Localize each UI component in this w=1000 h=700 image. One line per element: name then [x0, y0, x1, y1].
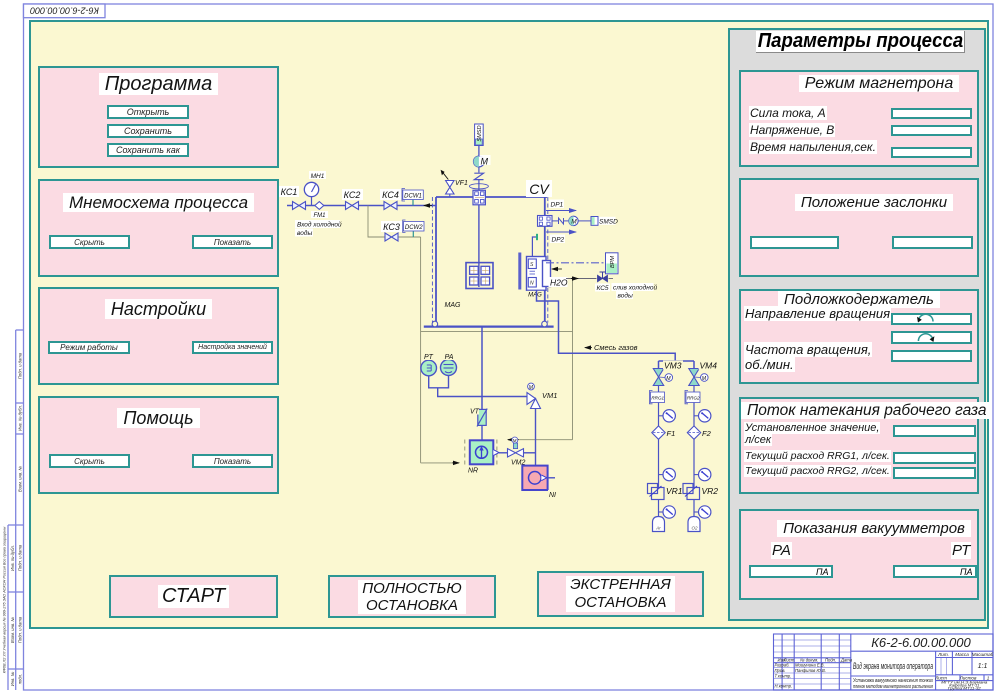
svg-text:К6-2-6.00.00.000: К6-2-6.00.00.000 — [30, 5, 99, 15]
note слив холодной воды — [612, 283, 658, 300]
valve КС2 — [346, 202, 359, 210]
svg-text:Разраб.: Разраб. — [775, 663, 790, 668]
valve КС5 — [598, 272, 608, 282]
svg-text:MAG: MAG — [445, 302, 462, 309]
panel Подложкодержатель — [739, 289, 979, 384]
gauge column1 b — [659, 468, 676, 480]
svg-text:КС5: КС5 — [596, 285, 608, 292]
label КС1 — [279, 186, 299, 197]
svg-text:Инв. № дубл.: Инв. № дубл. — [10, 545, 15, 571]
motor M — [474, 155, 491, 167]
control arrow to NR — [452, 462, 459, 464]
svg-text:SMSD: SMSD — [599, 219, 618, 226]
svg-text:К6-2-6.00.00.000: К6-2-6.00.00.000 — [871, 635, 971, 650]
gauge column2 b — [694, 468, 711, 480]
gauge column2 c — [694, 506, 711, 518]
svg-text:VR2: VR2 — [702, 486, 719, 496]
left section rows — [774, 640, 851, 684]
svg-text:Ar: Ar — [655, 526, 661, 531]
regulator VR1 — [648, 484, 685, 517]
button СТАРТ — [109, 575, 278, 618]
svg-text:М: М — [571, 219, 577, 226]
svg-text:М: М — [481, 157, 489, 167]
svg-text:М: М — [666, 376, 671, 382]
window feedthrough on right wall — [538, 216, 553, 227]
svg-text:RRG1: RRG1 — [651, 396, 664, 401]
svg-text:PT: PT — [424, 354, 434, 361]
svg-text:КФ6В.Л2 УЛ Учебная версия № 99: КФ6В.Л2 УЛ Учебная версия № 999-276 ЗАО … — [3, 527, 7, 674]
svg-text:М: М — [513, 438, 517, 443]
svg-text:ВРМ: ВРМ — [610, 256, 616, 268]
svg-text:Лист: Лист — [783, 657, 795, 662]
wire: gauge manifold — [429, 376, 531, 397]
svg-text:подл.: подл. — [18, 674, 23, 684]
svg-text:VT: VT — [470, 409, 480, 416]
motor M2 (shutter drive) — [569, 216, 591, 225]
gauge column2 a — [694, 410, 711, 422]
svg-text:Взам. инв. №: Взам. инв. № — [18, 466, 23, 492]
svg-text:Смесь газов: Смесь газов — [594, 343, 638, 352]
regulator VR2 — [683, 484, 720, 517]
label MAG (magnetron) — [527, 291, 544, 299]
svg-text:Подп. и дата: Подп. и дата — [18, 352, 23, 379]
svg-text:Н.контр.: Н.контр. — [775, 684, 793, 689]
svg-text:RRG2: RRG2 — [687, 396, 700, 401]
svg-text:FM1: FM1 — [314, 213, 326, 219]
svg-text:воды: воды — [297, 229, 312, 237]
panel Режим магнетрона — [739, 70, 979, 167]
wire: chamber to VT — [481, 327, 483, 410]
bellows — [469, 184, 488, 189]
wire: cold water main line — [287, 205, 436, 207]
gauge МН1 — [304, 171, 326, 206]
label КС4 — [380, 189, 401, 200]
label Н2О — [549, 277, 568, 287]
wire: branch to КС3 — [368, 206, 421, 238]
svg-text:F1: F1 — [667, 429, 676, 438]
gas gauges PT PA — [421, 352, 437, 376]
svg-text:КС3: КС3 — [383, 222, 400, 232]
svg-text:М: М — [702, 376, 707, 382]
panel Поток натекания рабочего газа — [739, 397, 979, 494]
svg-text:Группа МТ11-32: Группа МТ11-32 — [948, 686, 982, 690]
block SMSD2 — [591, 217, 618, 226]
gauge port DP1 — [546, 200, 576, 211]
svg-text:DP1: DP1 — [551, 202, 564, 209]
arrow into chamber water port — [424, 205, 432, 207]
rotary feedthrough — [473, 190, 485, 205]
svg-text:1:1: 1:1 — [978, 663, 988, 670]
svg-text:Т.контр.: Т.контр. — [775, 673, 792, 678]
label CV — [526, 180, 552, 197]
svg-text:Взам. инв. №: Взам. инв. № — [10, 617, 15, 643]
svg-text:КС1: КС1 — [281, 187, 298, 197]
svg-text:MAG: MAG — [528, 293, 542, 299]
svg-text:Масса: Масса — [955, 652, 969, 657]
right grey column — [728, 28, 986, 621]
svg-text:слив холодной: слив холодной — [613, 284, 657, 292]
panel Настройки — [38, 287, 279, 385]
svg-text:N: N — [530, 280, 534, 286]
svg-text:VM3: VM3 — [664, 360, 682, 370]
valve VM2 — [508, 437, 528, 467]
svg-text:VF1: VF1 — [455, 180, 468, 187]
rotation direction arc ccw — [917, 314, 933, 322]
svg-text:Панфилов Ю.В.: Панфилов Ю.В. — [795, 668, 826, 673]
svg-text:DP2: DP2 — [552, 237, 565, 244]
valve КС3 — [385, 233, 398, 241]
svg-text:DCW2: DCW2 — [405, 225, 423, 231]
wire SMSD to motor — [478, 146, 480, 157]
wire NR to VM2 — [499, 452, 508, 454]
svg-text:пленок методом магнетронного р: пленок методом магнетронного распыления — [853, 684, 933, 690]
svg-text:Инв. №: Инв. № — [10, 671, 15, 686]
svg-text:NI: NI — [549, 492, 556, 499]
svg-text:Дата: Дата — [840, 657, 853, 662]
filter F1 — [652, 426, 675, 488]
svg-text:NR: NR — [468, 468, 478, 475]
wire: gas mixture line — [537, 290, 695, 368]
label Смесь газов — [585, 342, 638, 352]
svg-text:Вход холодной: Вход холодной — [297, 221, 342, 229]
flexible coupling Z — [474, 167, 483, 190]
valve КС4 — [384, 202, 397, 210]
panel Мнемосхема процесса — [38, 179, 279, 277]
drain line to КС5 — [566, 278, 613, 280]
contact N — [552, 218, 569, 224]
svg-text:Подп. и дата: Подп. и дата — [18, 616, 23, 643]
left margin rotated labels — [3, 352, 23, 686]
svg-text:DCW1: DCW1 — [404, 193, 422, 199]
title block — [774, 634, 994, 690]
gauge column1 a — [659, 410, 676, 422]
svg-text:VR1: VR1 — [666, 486, 683, 496]
vacuum chamber CV — [424, 197, 554, 327]
label КС5 — [595, 284, 610, 293]
gas bottle Ar — [653, 517, 665, 532]
label MAG (chamber) — [444, 299, 461, 309]
svg-text:Вид экрана монитора оператора: Вид экрана монитора оператора — [853, 661, 933, 671]
block ВРМ — [606, 253, 619, 274]
label КС2 — [342, 189, 363, 200]
pump NR — [465, 440, 499, 475]
svg-text:SMSD: SMSD — [477, 125, 483, 141]
controller RRG2 — [685, 386, 700, 427]
svg-text:КС4: КС4 — [382, 190, 399, 200]
svg-text:Мишунина Е.В.: Мишунина Е.В. — [795, 663, 825, 668]
svg-text:МН1: МН1 — [311, 173, 325, 180]
pump NI — [522, 466, 559, 499]
filter F2 — [687, 426, 711, 488]
name/org cells — [935, 651, 937, 690]
panel Положение заслонки — [739, 178, 979, 277]
svg-text:Подп. и дата: Подп. и дата — [18, 544, 23, 571]
rotation direction arc cw — [918, 334, 934, 342]
angle valve VM1 — [527, 383, 558, 408]
svg-text:F2: F2 — [702, 429, 712, 438]
svg-text:Масштаб: Масштаб — [972, 652, 994, 657]
panel Помощь — [38, 396, 279, 494]
svg-text:Инв. № дубл.: Инв. № дубл. — [18, 405, 23, 431]
magnetron MAG assembly — [518, 253, 550, 291]
panel Показания вакуумметров — [739, 509, 979, 600]
left margin column lines — [15, 330, 17, 690]
sensor box DCW2 — [403, 220, 424, 237]
gauge column1 c — [659, 506, 676, 518]
svg-text:CV: CV — [529, 181, 550, 197]
number cell — [851, 650, 993, 652]
label КС3 — [381, 221, 402, 232]
svg-text:VM1: VM1 — [542, 391, 557, 400]
gas column 1 : valve VM3 — [653, 360, 683, 385]
button ЭКСТРЕННАЯ ОСТАНОВКА — [537, 571, 704, 617]
svg-text:№ докум.: № докум. — [800, 657, 818, 662]
note Вход холодной воды — [295, 220, 342, 237]
valve VT — [469, 407, 487, 427]
gas column 2 : valve VM4 — [689, 360, 719, 385]
svg-text:PA: PA — [445, 354, 454, 361]
header Параметры процесса — [756, 31, 965, 53]
left change-log section verticals — [781, 634, 783, 690]
drive block SMSD (top) — [475, 124, 484, 146]
svg-text:VM4: VM4 — [700, 360, 718, 370]
control arrow to VM2 motor — [508, 439, 519, 441]
svg-text:Пров.: Пров. — [775, 668, 786, 673]
top-left inverted stamp К6-2-6.00.00.000 — [24, 4, 106, 18]
valve КС1 — [293, 202, 306, 210]
thermocouple mark — [536, 234, 538, 240]
panel Программа — [38, 66, 279, 168]
flow meter FM1 — [311, 202, 328, 219]
shutter linkage wire — [532, 237, 536, 257]
svg-text:Подп.: Подп. — [825, 657, 836, 662]
svg-text:Лит.: Лит. — [937, 652, 949, 657]
svg-text:воды: воды — [618, 292, 633, 300]
gas bottle O2 — [688, 517, 700, 532]
svg-text:O2: O2 — [692, 526, 699, 531]
svg-text:КС2: КС2 — [344, 190, 361, 200]
measuring link to ВРМ — [546, 262, 606, 264]
cooling water arrow in — [552, 268, 562, 270]
svg-text:Н2О: Н2О — [550, 277, 568, 287]
shaft wire — [478, 205, 480, 287]
sensor box DCW1 — [402, 189, 423, 206]
vent valve VF1 — [441, 170, 468, 197]
gauge port DP2 — [546, 232, 576, 244]
control line: left loop — [421, 237, 573, 463]
controller RRG1 — [650, 386, 665, 427]
button ПОЛНОСТЬЮ ОСТАНОВКА — [328, 575, 496, 618]
substrate holder — [466, 263, 493, 289]
